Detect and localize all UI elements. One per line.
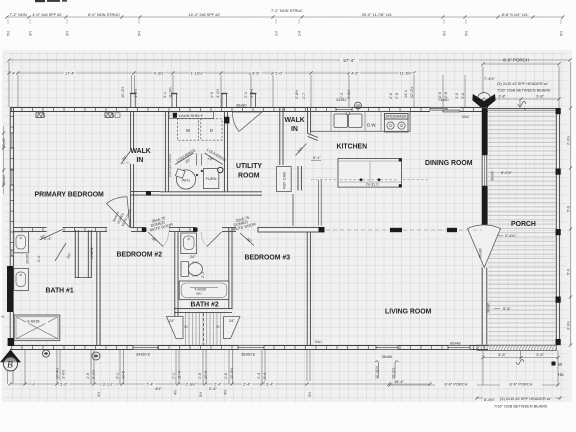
main right wall black segment 1 [482,109,488,156]
window 60x48 living [448,346,470,350]
shower S-6035 [14,315,60,341]
cut-off title text at sheet top [35,0,67,2]
utility door fan 36x80 [232,103,262,132]
kitchen hall wall line [292,194,294,226]
right wall window 36x60 (dining) [482,155,487,186]
walk-in 1 door [120,151,130,165]
svg-text:4'-0" 2x6 SPF #2: 4'-0" 2x6 SPF #2 [32,12,61,17]
washer [177,119,198,140]
kitchen sink [334,111,362,127]
bedroom3 / living wall [307,232,310,346]
detail marker under porch dim [518,102,527,112]
room label primary bedroom [35,192,105,199]
left wall window labels [1,138,6,318]
porch posts [556,108,561,114]
black shear wall segment left [7,266,14,312]
kitchen window label [336,97,347,102]
bottom wall window labels [136,340,461,359]
6-1 dim [311,155,321,161]
room label bath 2 [191,302,219,309]
room label bedroom 3 [245,255,291,262]
furnace FURN [196,167,223,188]
room label bath 1 [46,288,74,295]
REF CAB [277,167,292,192]
small circle marker below wall [92,352,100,360]
svg-text:3½: 3½ [29,31,33,36]
water heater WH [175,169,195,189]
room label porch [511,221,536,228]
small 63x3 label [462,115,469,119]
hall wall below walkin/laundry [131,192,160,196]
linen closet door [55,243,73,261]
dryer [201,119,222,140]
entry flared wall left [167,317,184,339]
GB circle [355,102,362,109]
8-6 porch bottom dim [388,381,559,388]
bedroom2 / bath1 wall [97,232,100,346]
svg-text:3½: 3½ [443,31,447,36]
right wall lower thin section [482,268,487,345]
bath2 / bedroom3 wall [229,228,232,309]
porch header note top right [484,76,551,93]
extension lines from dims to top wall [9,62,559,108]
walk-in 2 walls [308,108,311,134]
island [338,159,402,188]
overall dimension 57-4 [7,56,571,63]
bottom rotated sub-dims [56,366,396,379]
svg-text:7'-2" NON STRUC: 7'-2" NON STRUC [271,8,303,13]
svg-text:14'-4" 2x6 SPF #2: 14'-4" 2x6 SPF #2 [188,12,219,17]
dimension row 3 [7,70,415,76]
range burners [385,119,409,132]
room label living room [385,309,432,316]
room label walk in 1 [131,148,151,164]
linen closet [75,230,94,278]
black corner segment left-bottom [8,338,15,346]
return wall beside ref cab [298,166,301,191]
spice drawer box [385,114,409,120]
utility room door to hall (MUTE DOOR text) [232,215,256,246]
room label walk in 2 [285,117,305,133]
legend right edge [552,362,565,378]
porch bottom 3-8 dims [481,352,559,359]
bedroom2 door [148,215,173,246]
slider label [438,97,449,102]
patio slider door 73x80 [430,108,460,112]
bedroom2 / bath2 wall [175,232,178,318]
walk-in closet 1 walls [131,112,134,151]
left exterior wall [10,108,13,134]
porch right wall [556,108,559,345]
entry boards [184,313,221,345]
primary bedroom wall registers [36,113,45,118]
bath1 door from primary [39,230,62,241]
scan noise overlay [0,0,1,1]
pocket door label [168,153,172,177]
primary bedroom door fan (hall west end) [107,197,134,228]
section arrow marker top (porch) [472,93,495,111]
svg-text:5½: 5½ [7,31,11,36]
svg-text:7/16" OSB BETWEEN BEAMS: 7/16" OSB BETWEEN BEAMS [494,404,548,409]
kitchen window 32x42 [336,108,352,112]
walk-in 2 door 24 [296,144,307,156]
top exterior wall [10,108,336,112]
room label dining room [425,160,473,167]
dims beside porch door [497,233,517,238]
window 36x60 left lower [10,170,13,185]
svg-text:5½: 5½ [465,31,469,36]
corner post walkin1 [173,113,177,118]
room label kitchen [337,144,368,151]
bath1 vanity 2 [14,269,29,291]
window 34x60 E [133,346,158,350]
16-4 dim [394,379,405,384]
kitchen counter [311,112,410,132]
dishwasher label [367,123,377,128]
svg-text:8'-0" NON STRUC: 8'-0" NON STRUC [88,12,120,17]
bottom header note [475,396,561,409]
svg-text:3½: 3½ [66,31,70,36]
porch bottom detail marker [516,360,524,365]
dryer vent black box [224,117,229,124]
beam dash marks over living room [326,228,482,232]
window 36x60 E [238,346,264,350]
bath1 vanity 1 [14,232,29,253]
hall west wall [131,191,134,227]
window flag extension pairs on top wall [130,94,136,108]
porch top edge [483,109,556,111]
window 36x60 left upper [10,133,13,148]
porch door swing fan 36x80 [468,225,501,268]
louvered bifold doors [175,147,227,165]
svg-text:2-0: 2-0 [275,31,279,36]
window 36x60 living [376,346,398,350]
kitchen stub wall [319,180,322,226]
top dimension line row 1 [5,15,564,18]
top row labels [9,8,529,17]
island center dashed line + dots [311,178,428,181]
bath2 toilet [181,262,202,277]
bottom main dim line [8,381,431,387]
svg-text:5½: 5½ [138,31,142,36]
main right wall black segment 2 [482,186,488,226]
utility room walls [224,112,227,192]
bath2 bottom wall [174,308,232,312]
porch bottom hatched sill [477,345,556,350]
section marker B bottom left [0,350,21,372]
between vanities label [26,254,30,264]
room label utility room [236,163,262,180]
porch deck boards [488,110,556,344]
laundry shelf [169,112,214,119]
svg-text:20'-0" 11-7/8" LVL: 20'-0" 11-7/8" LVL [362,12,394,17]
rotated sub-dimension clusters above wall [121,87,465,99]
left outside dim line [2,126,5,194]
graph paper grid [4,52,566,402]
right side vertical dim line [569,62,572,347]
svg-text:8'-8" 9-1/4" LVL: 8'-8" 9-1/4" LVL [502,12,530,17]
bath2 small dims [190,254,205,278]
entry flared wall right [224,317,241,339]
lowest rotated bits [97,390,312,397]
porch top 3-8 dims [481,94,560,101]
bath1 small dims [36,236,52,262]
svg-text:2-6: 2-6 [298,31,302,36]
bottom extension lines [8,350,559,385]
bottom exterior wall [10,346,133,350]
tub T-6030 [179,281,229,299]
hall wall y=228 (left of bed2 door) [14,228,47,232]
small circle marker 2 [42,350,49,357]
dining window label [491,170,513,181]
room label bedroom 2 [117,252,163,259]
porch top dimension 8-6 [481,58,560,66]
bath2 door [201,232,222,247]
bath2 vanity [181,233,197,254]
svg-text:7'-2" NON: 7'-2" NON [9,12,27,17]
top row small vertical sub-labels [7,31,564,36]
kitchen/living half wall with black end post [258,227,325,232]
svg-text:5½: 5½ [560,31,564,36]
